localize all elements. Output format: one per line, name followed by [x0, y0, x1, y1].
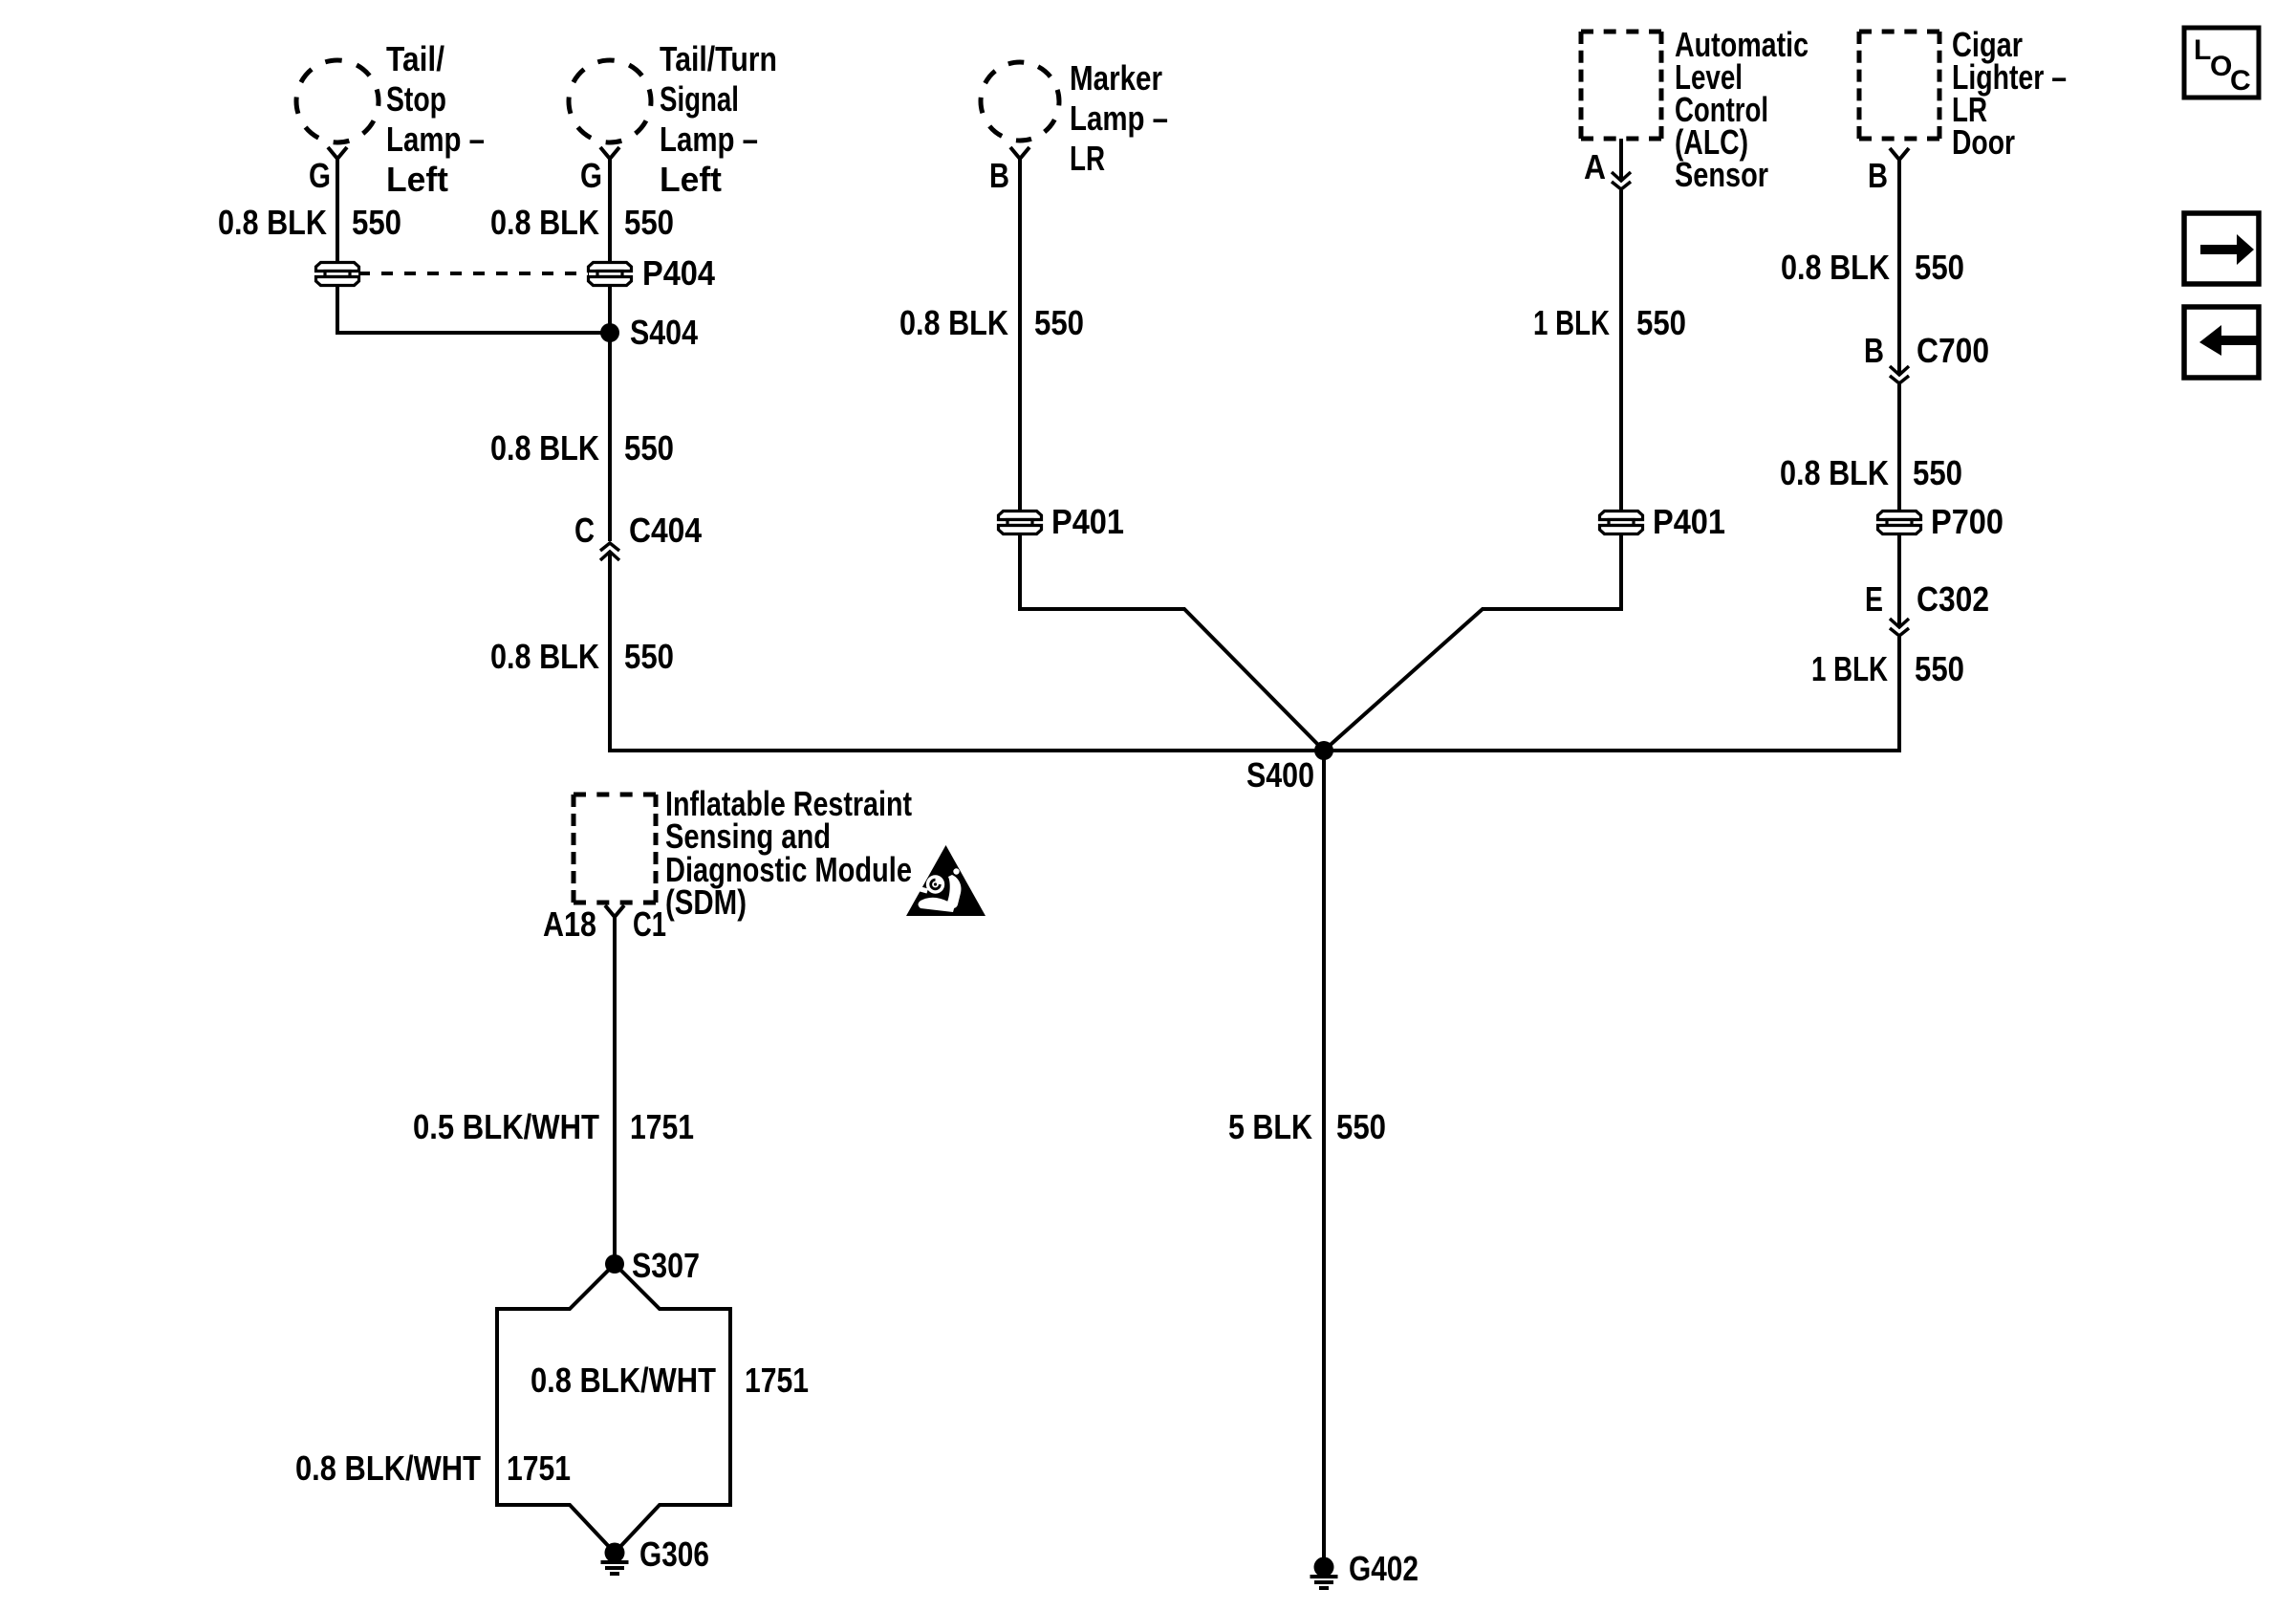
lamp Tail/Stop Lamp - Left (dashed circle symbol): [296, 60, 379, 142]
connector P700 grommet: [1878, 512, 1921, 534]
svg-text:5 BLK: 5 BLK: [1228, 1107, 1312, 1146]
svg-text:0.8 BLK: 0.8 BLK: [490, 637, 599, 676]
twisted pair loop wire right branch (S307 to G306): [615, 1264, 730, 1553]
connector C404 (in-line connector arrow pointing up): [600, 543, 619, 560]
svg-text:0.8 BLK: 0.8 BLK: [218, 203, 327, 242]
svg-text:G402: G402: [1349, 1549, 1419, 1588]
wire C302 down to ground bus: [1897, 637, 1901, 752]
svg-text:(SDM): (SDM): [665, 882, 747, 922]
module Automatic Level Control (ALC) Sensor (dashed box): [1581, 32, 1661, 139]
svg-text:C1: C1: [633, 904, 666, 944]
connector P404 right grommet: [589, 263, 632, 286]
lamp Marker Lamp - LR (dashed circle symbol): [981, 62, 1059, 141]
svg-text:550: 550: [1915, 649, 1964, 688]
svg-text:C700: C700: [1917, 331, 1989, 370]
wire Tail/Turn lamp pin G down to P404: [608, 159, 612, 264]
ground bus wire (horizontal): [608, 749, 1901, 752]
splice S404: [600, 323, 619, 342]
svg-text:550: 550: [1915, 248, 1964, 287]
pigtail connector at SDM: [605, 905, 624, 917]
svg-text:Lamp –: Lamp –: [660, 120, 758, 159]
svg-text:0.8 BLK/WHT: 0.8 BLK/WHT: [295, 1448, 481, 1488]
svg-text:550: 550: [1636, 303, 1686, 342]
wire P700 to C302: [1897, 533, 1901, 627]
connector P401 right grommet: [1600, 512, 1643, 534]
connector C700 (in-line connector arrow pointing down): [1890, 366, 1909, 383]
svg-text:P404: P404: [642, 253, 715, 293]
svg-text:1 BLK: 1 BLK: [1533, 303, 1610, 342]
wire C404 down to ground bus: [608, 552, 612, 752]
svg-text:Left: Left: [386, 160, 448, 199]
svg-text:S404: S404: [630, 313, 698, 352]
svg-text:P401: P401: [1653, 502, 1725, 541]
svg-text:Lamp –: Lamp –: [386, 120, 485, 159]
ground G402: [1310, 1557, 1338, 1589]
svg-text:C: C: [574, 511, 595, 550]
legend LOC box: [2184, 28, 2259, 98]
module Inflatable Restraint Sensing and Diagnostic Module SDM (dashed box): [574, 795, 656, 903]
svg-text:E: E: [1865, 579, 1883, 619]
airbag warning triangle icon: [906, 845, 986, 916]
wire Marker lamp pin B down to P401: [1018, 159, 1022, 512]
pigtail connector at Cigar Lighter: [1890, 148, 1909, 160]
svg-text:0.8 BLK: 0.8 BLK: [490, 203, 599, 242]
svg-text:Sensor: Sensor: [1675, 155, 1768, 194]
svg-text:550: 550: [624, 203, 674, 242]
svg-text:Stop: Stop: [386, 79, 446, 119]
svg-text:C: C: [2230, 65, 2251, 97]
twisted pair loop wire left branch (S307 to G306): [497, 1264, 615, 1553]
connector C302 (in-line connector arrow pointing down): [1890, 619, 1909, 636]
svg-text:0.8 BLK: 0.8 BLK: [1781, 248, 1890, 287]
wire P401 down, right and diagonal to splice S400: [1020, 533, 1324, 751]
pigtail connector at Tail/Stop lamp: [328, 147, 347, 159]
svg-text:P401: P401: [1051, 502, 1124, 541]
svg-text:C404: C404: [629, 511, 702, 550]
svg-text:S307: S307: [632, 1246, 700, 1285]
wire SDM pin A18 down to splice S307: [613, 917, 617, 1255]
svg-text:Marker: Marker: [1070, 58, 1162, 98]
svg-text:P700: P700: [1931, 502, 2004, 541]
svg-text:B: B: [1868, 156, 1888, 195]
dashed tie line between P404 halves: [358, 272, 589, 275]
svg-text:S400: S400: [1246, 755, 1314, 795]
pigtail connector at Marker lamp: [1010, 147, 1029, 159]
connector P404 left grommet: [316, 263, 359, 286]
svg-text:A: A: [1584, 147, 1606, 186]
wire P401 down, left and diagonal to splice S400: [1324, 533, 1621, 751]
svg-text:0.8 BLK: 0.8 BLK: [490, 428, 599, 468]
svg-text:B: B: [989, 156, 1009, 195]
splice S307: [605, 1254, 624, 1274]
svg-text:1751: 1751: [630, 1107, 694, 1146]
svg-text:550: 550: [1913, 453, 1962, 492]
svg-text:550: 550: [1336, 1107, 1386, 1146]
svg-text:Signal: Signal: [660, 79, 739, 119]
svg-text:0.5 BLK/WHT: 0.5 BLK/WHT: [413, 1107, 599, 1146]
svg-text:Tail/: Tail/: [386, 39, 444, 78]
svg-text:C302: C302: [1917, 579, 1989, 619]
svg-text:1 BLK: 1 BLK: [1811, 649, 1888, 688]
svg-text:1751: 1751: [745, 1361, 809, 1400]
wire pin A connector to P401: [1619, 190, 1623, 512]
wire C700 to P700: [1897, 384, 1901, 512]
legend arrow box (left arrow): [2184, 307, 2259, 378]
svg-text:550: 550: [1034, 303, 1084, 342]
svg-text:Tail/Turn: Tail/Turn: [660, 39, 777, 78]
ground G306: [601, 1543, 629, 1575]
svg-text:550: 550: [624, 428, 674, 468]
wire P404 left down and right to splice S404: [337, 284, 610, 333]
wire Cigar Lighter pin B down to C700: [1897, 160, 1901, 375]
svg-text:550: 550: [624, 637, 674, 676]
svg-text:550: 550: [352, 203, 401, 242]
svg-text:G: G: [309, 156, 331, 195]
svg-text:0.8 BLK/WHT: 0.8 BLK/WHT: [531, 1361, 716, 1400]
wire Tail/Stop lamp pin G down to P404: [336, 159, 339, 264]
svg-text:B: B: [1864, 331, 1884, 370]
svg-text:0.8 BLK: 0.8 BLK: [899, 303, 1008, 342]
svg-text:G306: G306: [639, 1535, 709, 1574]
svg-text:LR: LR: [1070, 139, 1105, 178]
splice S400: [1314, 741, 1333, 760]
svg-text:G: G: [580, 156, 602, 195]
svg-text:Lamp –: Lamp –: [1070, 98, 1168, 138]
svg-text:Door: Door: [1952, 122, 2015, 162]
svg-text:L: L: [2194, 34, 2211, 66]
svg-text:0.8 BLK: 0.8 BLK: [1780, 453, 1889, 492]
svg-text:A18: A18: [543, 904, 596, 944]
connector arrow at ALC pin A (harness connector, pointing down): [1612, 172, 1631, 189]
lamp Tail/Turn Signal Lamp - Left (dashed circle symbol): [569, 60, 651, 142]
wire stub from ALC sensor pin A: [1619, 139, 1623, 180]
connector P401 left grommet: [999, 512, 1042, 534]
pigtail connector at Tail/Turn lamp: [600, 147, 619, 159]
svg-text:O: O: [2210, 51, 2232, 82]
wire S400 down to ground G402: [1322, 751, 1326, 1558]
svg-text:Left: Left: [660, 160, 722, 199]
wire P404 to connector C404: [608, 284, 612, 541]
module Cigar Lighter - LR Door (dashed box): [1859, 32, 1939, 139]
legend arrow box (right arrow): [2184, 213, 2259, 284]
svg-text:1751: 1751: [507, 1448, 571, 1488]
